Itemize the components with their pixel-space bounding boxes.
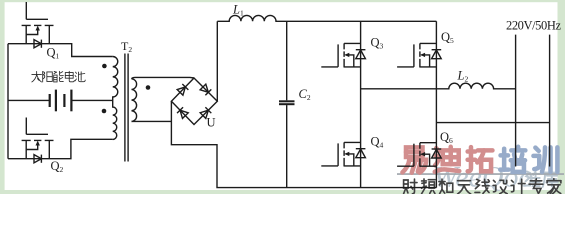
svg-text:U: U: [207, 116, 216, 130]
svg-text:220V/50Hz: 220V/50Hz: [506, 19, 561, 33]
